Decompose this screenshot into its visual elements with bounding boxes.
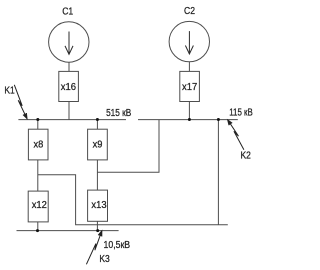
wire x9-x13 node branch to 115kV bus <box>97 120 159 173</box>
wire x13 to 10.5kV bus <box>96 221 98 230</box>
svg-text:x12: x12 <box>32 200 47 211</box>
junction x17 on 115kV bus <box>188 118 191 121</box>
wire C2 to x17 <box>188 62 190 72</box>
svg-text:x13: x13 <box>91 200 106 211</box>
generator C1 <box>49 22 89 62</box>
svg-text:C2: C2 <box>184 6 195 17</box>
wire x9 to x13 <box>96 160 98 190</box>
svg-text:C1: C1 <box>62 7 73 18</box>
svg-text:115 кВ: 115 кВ <box>229 108 253 119</box>
svg-text:x8: x8 <box>34 139 44 150</box>
svg-text:K2: K2 <box>241 150 251 161</box>
svg-text:515 кВ: 515 кВ <box>106 108 131 119</box>
arrow inside C2 <box>185 31 193 54</box>
wire x8-x12 node branch to 115kV bus <box>38 175 228 225</box>
junction riser on 115kV bus <box>217 118 220 121</box>
generator C2 <box>169 21 209 61</box>
svg-text:K3: K3 <box>99 254 109 265</box>
svg-text:K1: K1 <box>4 86 14 97</box>
transformer x12 <box>28 191 48 222</box>
transformer x17 <box>180 71 200 101</box>
wire bus to x9 <box>96 120 98 130</box>
wire x17 to 115kV bus <box>188 102 190 120</box>
junction x9 on 515kV bus <box>96 118 99 121</box>
bus 515kV <box>18 119 126 121</box>
junction x12 on 10.5kV bus <box>36 229 39 232</box>
svg-text:x17: x17 <box>182 82 197 93</box>
junction x13 on 10.5kV bus <box>96 229 99 232</box>
bus 115kV <box>138 119 238 121</box>
junction x8 on 515kV bus <box>36 118 39 121</box>
svg-text:x9: x9 <box>93 139 103 150</box>
transformer x16 <box>59 71 79 101</box>
wire x12 to 10.5kV bus <box>37 222 39 231</box>
wire bus to x8 <box>37 120 39 130</box>
fault arrow K1 <box>14 85 27 119</box>
arrow inside C1 <box>65 32 73 55</box>
transformer x13 <box>88 190 108 221</box>
svg-text:10,5кВ: 10,5кВ <box>104 240 131 251</box>
svg-text:x16: x16 <box>61 82 76 93</box>
wire riser to 115kV bus right <box>217 120 219 225</box>
transformer x8 <box>28 129 48 160</box>
wire x16 to 515kV bus <box>68 102 70 120</box>
fault arrow K3 <box>86 231 101 264</box>
bus 10.5kV <box>17 230 119 232</box>
transformer x9 <box>88 129 108 160</box>
fault arrow K2 <box>228 120 244 150</box>
wire x8 to x12 <box>37 160 39 191</box>
wire C1 to x16 <box>68 62 70 71</box>
